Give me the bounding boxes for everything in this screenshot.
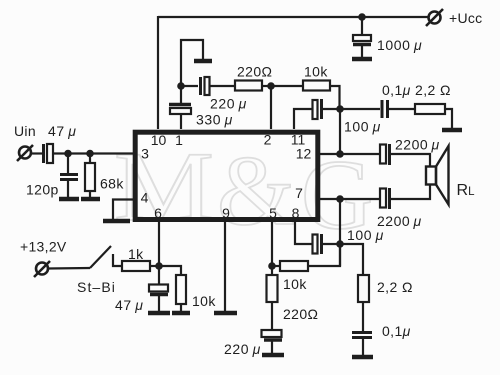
node pin2 junction — [267, 82, 275, 90]
wire pin 11 — [294, 109, 312, 129]
switch St-Bi arm — [90, 246, 111, 268]
svg-text:12: 12 — [296, 146, 312, 162]
svg-text:330 μ: 330 μ — [196, 112, 233, 128]
wire flag to ground — [181, 40, 203, 86]
wire 1k to pin6 node — [150, 265, 159, 267]
ground 220u bottom — [262, 353, 284, 358]
wire 2.2ohm to 0.1u — [362, 302, 364, 331]
wire 100u bottom to node — [322, 243, 340, 245]
svg-text:+Ucc: +Ucc — [449, 10, 483, 26]
wire 68k lead — [89, 153, 91, 163]
svg-text:2200 μ: 2200 μ — [395, 137, 440, 153]
wire node to 10k — [271, 85, 303, 87]
svg-text:10: 10 — [151, 132, 167, 148]
node bottom right — [336, 240, 344, 248]
ground flag — [194, 59, 212, 64]
wire 220u to R 220ohm — [210, 85, 235, 87]
watermark M&G — [114, 131, 373, 250]
node rail/1000u junction — [358, 13, 366, 21]
capacitor 0.1u bottom — [352, 333, 372, 357]
wire 220ohm to 220u — [271, 302, 273, 329]
svg-text:1k: 1k — [128, 246, 144, 262]
wire 2200u to speaker — [390, 154, 430, 167]
resistor 10k bottom left — [176, 275, 186, 304]
wire 220ohm to node — [262, 85, 271, 87]
wire Uin to 47u — [30, 152, 42, 154]
svg-text:220Ω: 220Ω — [283, 306, 318, 322]
svg-text:0,1μ 2,2 Ω: 0,1μ 2,2 Ω — [382, 82, 451, 98]
svg-text:220 μ: 220 μ — [210, 96, 247, 112]
wire top rail +Ucc — [158, 16, 428, 18]
svg-text:220Ω: 220Ω — [237, 64, 272, 80]
capacitor 220u top — [201, 77, 210, 95]
svg-text:4: 4 — [141, 190, 149, 206]
wire pin 9 — [224, 221, 226, 312]
wire node to 10k bottom left — [159, 266, 181, 275]
capacitor 0.1u top — [382, 100, 388, 118]
capacitor 47u bottom — [149, 285, 168, 313]
ground pin 9 — [214, 311, 237, 316]
svg-text:0,1μ: 0,1μ — [382, 323, 411, 339]
wire node to 10k — [272, 265, 280, 267]
ground 68k — [81, 197, 100, 202]
wire node to 0.1u — [340, 108, 380, 110]
svg-text:St–Bi: St–Bi — [77, 279, 116, 295]
capacitor 120p — [60, 175, 78, 199]
wire 2200u bottom to speaker — [390, 185, 430, 199]
svg-text:100 μ: 100 μ — [347, 227, 384, 243]
node pin 7 — [336, 195, 344, 203]
svg-text:120p: 120p — [26, 182, 59, 198]
wire 10k to top node — [330, 86, 340, 109]
resistor 10k pin5 — [280, 261, 308, 271]
ground 120p — [59, 197, 79, 202]
capacitor 1000u — [353, 35, 371, 58]
IC U1 body — [135, 132, 318, 219]
svg-text:47 μ: 47 μ — [115, 297, 143, 313]
ground 47u — [148, 311, 170, 316]
svg-text:10k: 10k — [283, 276, 307, 292]
wire pin 12 — [317, 153, 380, 155]
wire +13.2V to switch — [48, 267, 90, 270]
svg-text:8: 8 — [292, 205, 300, 221]
svg-text:1000 μ: 1000 μ — [377, 37, 422, 53]
node pin 12 — [336, 150, 344, 158]
svg-text:+13,2V: +13,2V — [20, 239, 67, 255]
wire pin 5 — [271, 221, 273, 266]
wire 10k to bottom node — [308, 244, 340, 266]
wire node to 2.2ohm bottom — [340, 244, 363, 275]
capacitor 220u bottom — [262, 330, 283, 354]
svg-text:68k: 68k — [100, 176, 124, 192]
svg-text:2: 2 — [264, 132, 272, 148]
wire pin1 junction to 220u — [181, 85, 198, 87]
node 120p — [64, 150, 72, 158]
capacitor 2200u bottom — [380, 188, 390, 209]
ground 0.1u bottom — [352, 355, 373, 360]
capacitor 100u bottom — [313, 234, 322, 254]
resistor 1k — [122, 261, 150, 271]
svg-text:6: 6 — [154, 205, 162, 221]
svg-text:9: 9 — [222, 205, 230, 221]
capacitor 47u input — [44, 144, 54, 163]
svg-text:5: 5 — [269, 205, 277, 221]
wire pin 8 — [295, 221, 312, 244]
wire 2.2ohm to ground — [445, 109, 452, 128]
speaker RL — [426, 146, 449, 205]
ground 10k bottom — [172, 311, 190, 316]
resistor 2.2ohm top — [415, 104, 445, 114]
wire 120p lead — [67, 153, 69, 173]
capacitor 100u top — [313, 99, 322, 119]
wire 47u lead — [158, 266, 160, 284]
capacitor 330u — [169, 105, 191, 130]
wire 47u to pin 3 — [53, 152, 136, 154]
wire 1000u lead — [361, 17, 363, 34]
svg-text:47 μ: 47 μ — [48, 123, 76, 139]
wire vertical node to pin12 node — [339, 109, 341, 154]
ground 1000u — [352, 57, 372, 62]
ground pin 4 — [103, 219, 130, 224]
resistor 220ohm bottom — [267, 275, 278, 302]
wire pin 4 to ground — [113, 200, 136, 220]
svg-text:220 μ: 220 μ — [224, 341, 261, 357]
wire pin7 node to bottom 100u node — [339, 199, 341, 266]
wire pin 6 — [158, 221, 160, 266]
svg-text:2,2 Ω: 2,2 Ω — [377, 279, 413, 295]
terminal Uin — [17, 145, 33, 161]
terminal +Ucc — [426, 9, 443, 26]
wire 100u to node — [322, 108, 340, 110]
capacitor 2200u top — [380, 144, 390, 165]
wire pin 2 — [270, 86, 272, 129]
node pin 6 — [155, 262, 163, 270]
wire 330u to pin 1 — [180, 86, 182, 103]
resistor 10k top — [303, 81, 330, 91]
ground zobel top — [442, 128, 462, 133]
wire pin 7 — [317, 198, 380, 200]
node 68k — [86, 150, 94, 158]
svg-text:3: 3 — [141, 146, 149, 162]
wire 10k to ground — [180, 304, 182, 312]
node pin1 junction A — [177, 82, 185, 90]
svg-text:&: & — [217, 135, 295, 246]
svg-text:100 μ: 100 μ — [344, 119, 381, 135]
svg-text:10k: 10k — [192, 293, 216, 309]
terminal +13.2V — [34, 261, 50, 277]
wire pin5 node to 220ohm — [271, 266, 273, 275]
resistor 2.2ohm bottom — [358, 275, 369, 302]
wire 0.1u to 2.2ohm — [389, 108, 415, 110]
svg-text:10k: 10k — [304, 64, 328, 80]
svg-text:1: 1 — [175, 132, 183, 148]
wire 68k to ground — [89, 191, 91, 198]
switch St-Bi contact — [113, 254, 122, 266]
node pin 5 — [268, 262, 276, 270]
svg-text:7: 7 — [295, 185, 303, 201]
node top right — [336, 105, 344, 113]
resistor 68k — [85, 163, 95, 191]
wire pin 10 to rail — [157, 16, 159, 129]
resistor 220ohm top — [235, 81, 262, 91]
svg-text:Uin: Uin — [14, 123, 36, 139]
